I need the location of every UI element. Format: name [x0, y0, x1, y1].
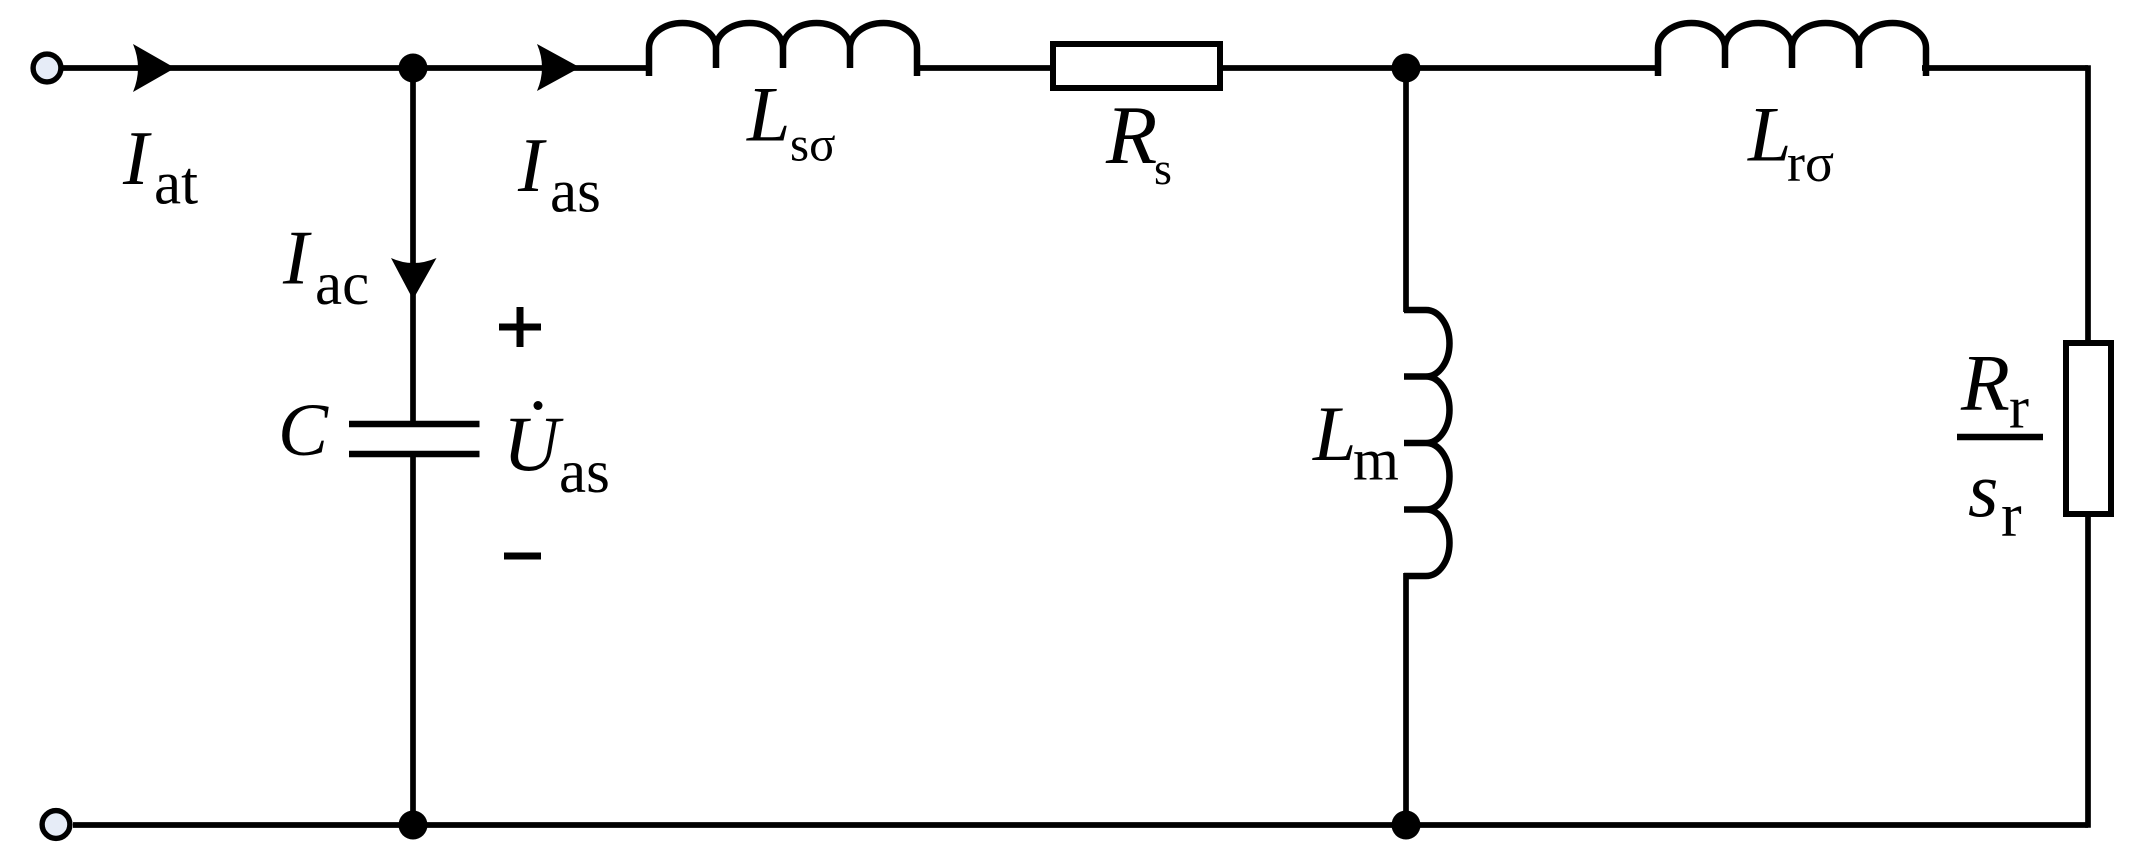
- svg-text:L: L: [1747, 91, 1791, 178]
- svg-text:sσ: sσ: [790, 117, 835, 172]
- svg-text:R: R: [1105, 89, 1157, 182]
- svg-text:L: L: [746, 71, 790, 158]
- svg-text:L: L: [1312, 390, 1356, 477]
- svg-text:rσ: rσ: [1787, 133, 1834, 193]
- svg-text:r: r: [2001, 482, 2022, 550]
- svg-text:s: s: [1968, 446, 1998, 533]
- svg-text:r: r: [2009, 375, 2029, 441]
- svg-text:as: as: [559, 439, 610, 506]
- svg-text:at: at: [154, 151, 198, 218]
- svg-text:C: C: [278, 389, 329, 472]
- svg-text:R: R: [1960, 340, 2010, 428]
- svg-text:U: U: [503, 400, 564, 487]
- svg-text:m: m: [1353, 427, 1399, 493]
- svg-text:I: I: [282, 215, 312, 301]
- svg-text:s: s: [1154, 143, 1172, 194]
- svg-text:I: I: [122, 115, 152, 201]
- svg-text:ac: ac: [315, 251, 369, 318]
- svg-text:I: I: [517, 122, 547, 208]
- svg-text:as: as: [550, 159, 601, 226]
